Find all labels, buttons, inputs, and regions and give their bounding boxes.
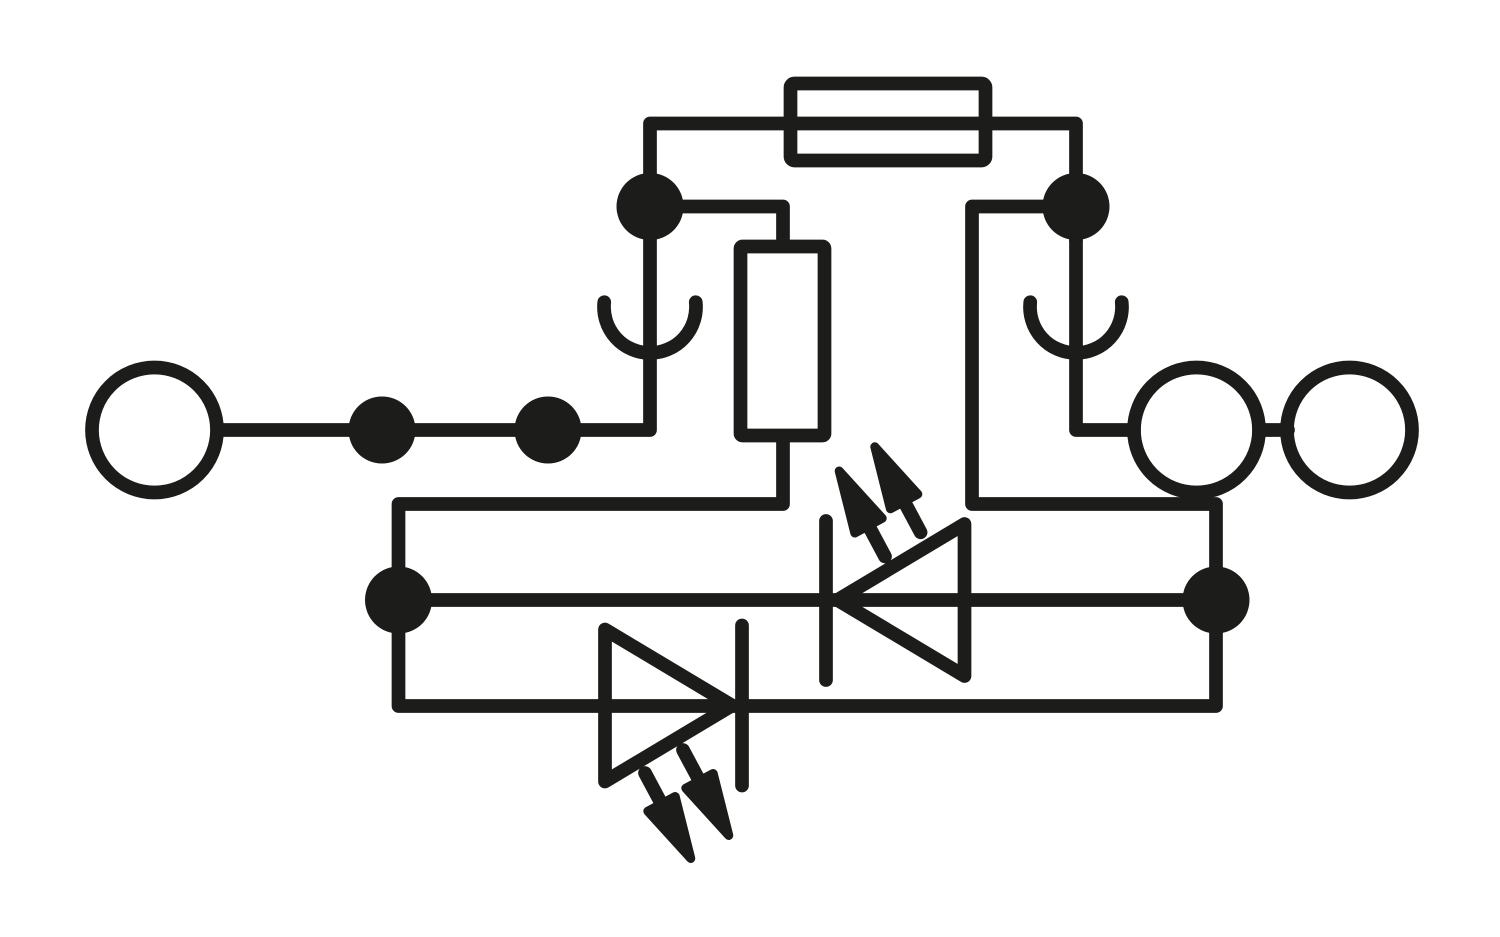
clamp contact right (spring clamp arc) <box>1030 302 1122 353</box>
LED D2 cathode bar <box>735 626 749 786</box>
LED D1 arrow 1 shaft <box>866 521 885 556</box>
clamp contact left (spring clamp arc) <box>604 302 696 353</box>
wire: link between output circles <box>1259 423 1288 437</box>
wire: bottom loop (resistor bottom, left leg, bottom run, right leg, back to right node) <box>399 207 1217 707</box>
right terminal circle B <box>1287 368 1412 493</box>
LED D2 arrow 1 shaft <box>645 773 664 808</box>
wire: resistor feed from left node <box>650 207 783 246</box>
LED D1 arrow 2 head <box>875 447 918 509</box>
fuse F1 <box>791 84 986 161</box>
LED D1 triangle (pointing left) <box>838 524 965 676</box>
junction dot on main wire 2 <box>515 397 582 464</box>
LED D1 arrow 2 shaft <box>902 497 921 532</box>
LED D2 arrow 1 head <box>648 797 691 859</box>
junction dot bottom-left <box>365 567 432 634</box>
LED D1 cathode bar <box>819 521 833 680</box>
junction dot on main wire 1 <box>349 397 416 464</box>
left terminal circle <box>92 368 217 493</box>
wire: middle LED branch y=600 <box>399 593 1217 607</box>
wire: left feed, riser x=650 up, top run y=123, drop to right node <box>223 124 1076 431</box>
LED D1 arrow 1 head <box>839 471 882 533</box>
LED D2 arrow 2 head <box>686 774 729 836</box>
junction dot right node <box>1043 173 1110 240</box>
LED D2 triangle (pointing right) <box>605 630 732 782</box>
wire: right node down to output circles <box>1076 240 1134 430</box>
right terminal circle A <box>1134 368 1259 493</box>
LED D2 arrow 2 shaft <box>683 750 702 785</box>
resistor R1 <box>741 247 825 436</box>
junction dot bottom-right <box>1183 567 1250 634</box>
junction dot left node <box>617 173 684 240</box>
